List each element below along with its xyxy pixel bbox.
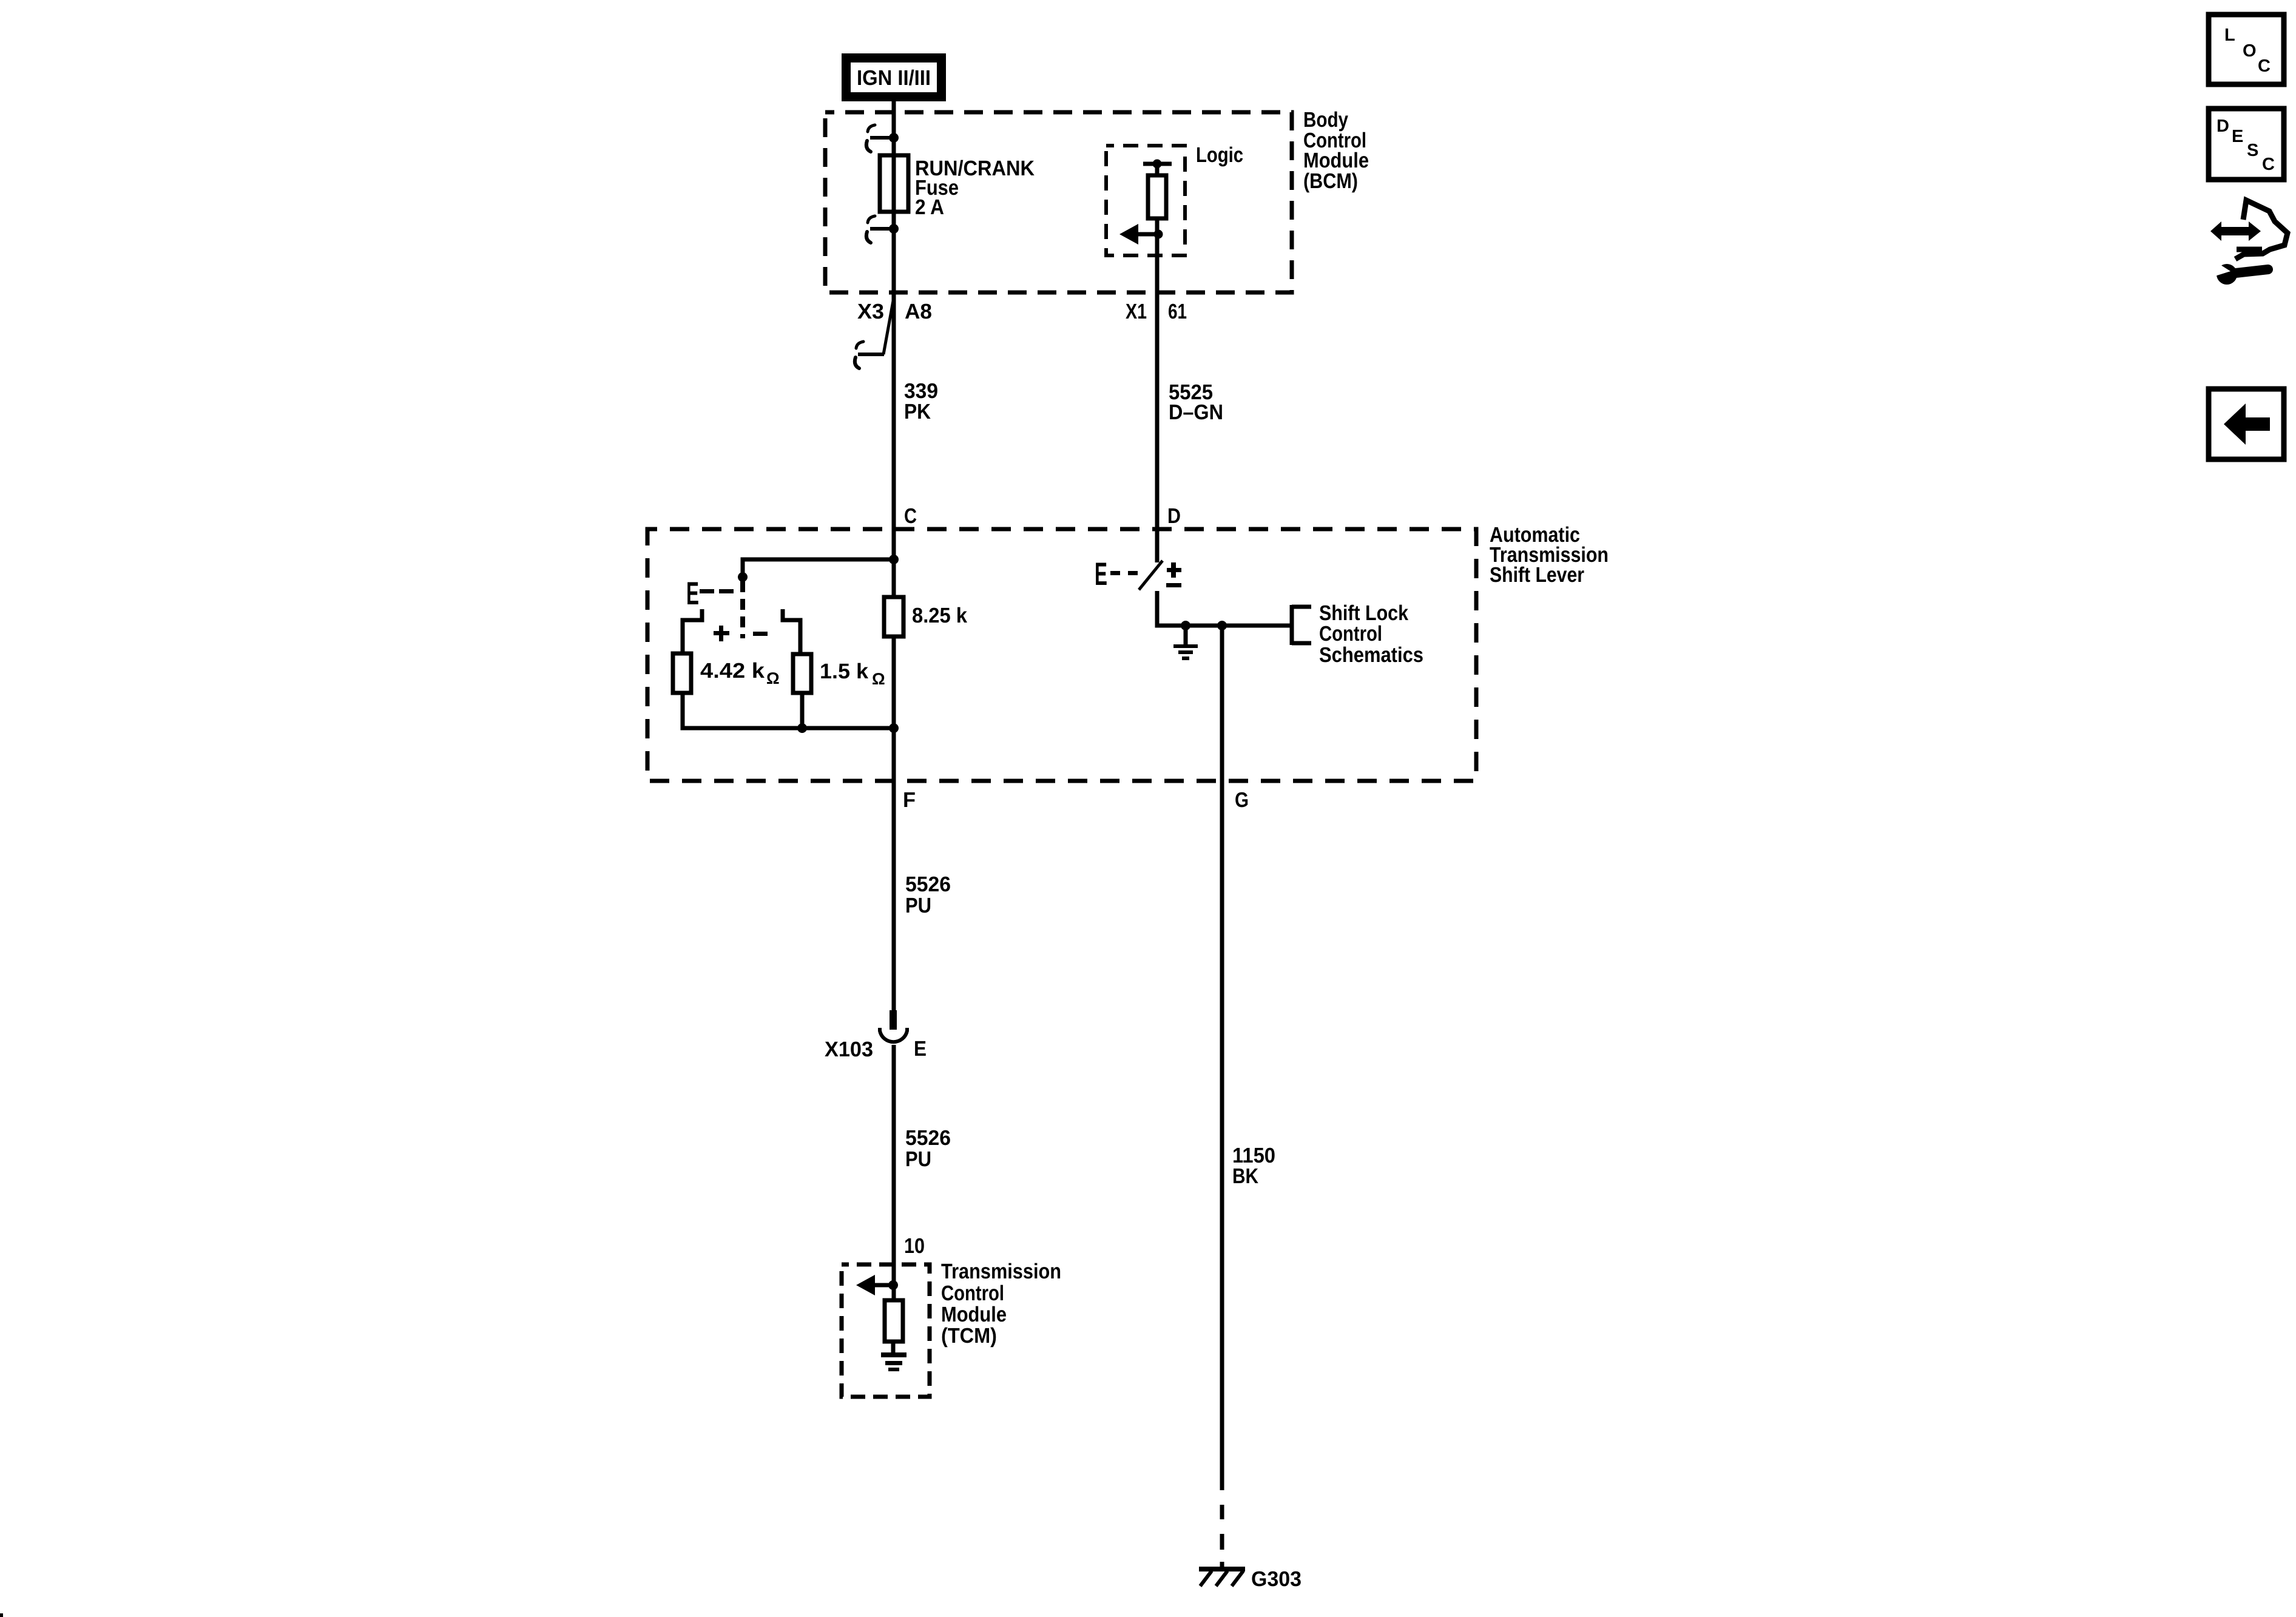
- svg-text:A8: A8: [905, 300, 932, 323]
- junction battery feed: [738, 572, 748, 582]
- connector X103 cup: [880, 1028, 907, 1042]
- wire node C into lever position sensor: [743, 559, 894, 577]
- wire label 1150 BK: [1232, 1144, 1275, 1188]
- switch callout E dashes: [1095, 556, 1138, 592]
- page artifact dot bottom-left: [0, 1613, 3, 1617]
- wire label 5526 PU lower: [905, 1126, 951, 1171]
- svg-text:(BCM): (BCM): [1303, 169, 1358, 193]
- svg-text:Control: Control: [1319, 622, 1382, 646]
- svg-text:(TCM): (TCM): [941, 1324, 997, 1348]
- sidebar icon diagnostic (double arrow, outline, wrench): [2209, 200, 2288, 285]
- junction ground stub: [1181, 621, 1190, 630]
- ground symbol at switch: [1173, 626, 1198, 660]
- svg-text:Schematics: Schematics: [1319, 643, 1423, 667]
- svg-text:O: O: [2243, 41, 2257, 61]
- svg-text:Logic: Logic: [1196, 143, 1243, 167]
- wire label 339 PK: [904, 379, 938, 424]
- svg-text:PU: PU: [905, 894, 931, 917]
- svg-text:C: C: [904, 504, 917, 528]
- svg-text:Control: Control: [941, 1281, 1004, 1305]
- switch plus-minus mark: [1166, 562, 1181, 587]
- svg-text:IGN II/III: IGN II/III: [857, 66, 931, 90]
- module box Automatic Transmission Shift Lever (dashed outline): [647, 529, 1476, 781]
- power source label IGN II/III: [842, 53, 946, 101]
- connector X3 slash: [883, 294, 894, 354]
- battery left terminal wire: [683, 609, 702, 653]
- label Body Control Module (BCM): [1303, 108, 1369, 193]
- svg-text:X1: X1: [1126, 300, 1147, 323]
- logic top junction: [1153, 160, 1162, 169]
- label Transmission Control Module (TCM): [941, 1260, 1061, 1348]
- svg-text:X3: X3: [857, 300, 884, 323]
- svg-text:Ω: Ω: [766, 669, 780, 687]
- connector X3 clip: [855, 342, 884, 368]
- wire node G to G303 (solid run): [1220, 626, 1224, 1490]
- logic top bar: [1143, 162, 1172, 166]
- logic sub-box in BCM (dashed): [1106, 146, 1185, 255]
- label Automatic Transmission Shift Lever: [1490, 523, 1609, 587]
- svg-text:D: D: [2217, 116, 2229, 136]
- bracket to Shift Lock Control Schematics: [1290, 605, 1294, 645]
- svg-text:1.5 k: 1.5 k: [820, 660, 869, 683]
- svg-text:X103: X103: [825, 1038, 873, 1061]
- TCM arrow (signal into module): [856, 1275, 893, 1295]
- resistor 1.5 k: [793, 654, 811, 693]
- resistor 8.25 k: [884, 597, 903, 636]
- junction node F top: [889, 723, 899, 733]
- sidebar icon back button: [2209, 389, 2284, 459]
- junction above fuse: [889, 133, 899, 143]
- svg-text:5526: 5526: [905, 873, 951, 896]
- svg-text:G: G: [1235, 788, 1249, 812]
- fuse clip lower: [866, 216, 892, 243]
- svg-text:Transmission: Transmission: [941, 1260, 1061, 1283]
- svg-text:D–GN: D–GN: [1169, 400, 1223, 424]
- svg-text:PK: PK: [904, 400, 931, 424]
- svg-text:8.25 k: 8.25 k: [912, 604, 967, 627]
- wire dashed run to G303: [1220, 1505, 1224, 1568]
- svg-text:F: F: [903, 788, 916, 812]
- svg-text:C: C: [2258, 56, 2271, 76]
- svg-text:61: 61: [1168, 300, 1187, 323]
- wire below 1.5 k: [800, 693, 805, 728]
- module box BCM (dashed outline): [825, 112, 1292, 292]
- svg-text:2 A: 2 A: [915, 195, 944, 219]
- fuse RUN/CRANK 2 A: [880, 155, 908, 212]
- battery center dashed line: [740, 581, 745, 638]
- battery plus sign: [714, 626, 729, 641]
- value label 4.42 k ohm: [700, 659, 780, 687]
- connector X103 male terminal: [890, 1010, 897, 1030]
- svg-text:Module: Module: [941, 1303, 1007, 1326]
- value label 1.5 k ohm: [820, 660, 885, 688]
- sidebar icon LOC button: [2209, 15, 2284, 84]
- shift lock switch blade: [1139, 561, 1163, 590]
- junction below fuse: [889, 224, 899, 234]
- shift lock switch wire upper: [1155, 529, 1160, 562]
- svg-text:Ω: Ω: [872, 670, 885, 688]
- svg-text:D: D: [1167, 504, 1181, 528]
- logic arrow (signal into logic): [1119, 224, 1158, 245]
- svg-text:E: E: [686, 576, 699, 612]
- TCM junction: [888, 1280, 898, 1290]
- resistor in BCM logic: [1148, 175, 1166, 218]
- svg-text:10: 10: [904, 1234, 925, 1258]
- svg-text:Shift Lever: Shift Lever: [1490, 563, 1584, 587]
- sidebar icon DESC button: [2209, 109, 2284, 180]
- battery minus sign: [753, 632, 768, 636]
- wire label 5526 PU upper: [905, 873, 951, 917]
- label RUN/CRANK Fuse 2 A: [915, 157, 1035, 219]
- logic junction: [1154, 230, 1163, 239]
- junction node C top: [889, 555, 899, 564]
- svg-text:S: S: [2247, 141, 2258, 160]
- junction node G top: [1217, 621, 1227, 630]
- resistor 4.42 k: [673, 653, 691, 693]
- svg-text:E: E: [2232, 127, 2243, 146]
- wire 8.25 k to node F: [892, 636, 896, 1010]
- svg-text:L: L: [2224, 25, 2235, 45]
- resistor in TCM: [885, 1300, 903, 1342]
- svg-text:4.42 k: 4.42 k: [700, 659, 765, 683]
- label Shift Lock Control Schematics: [1319, 601, 1423, 667]
- junction below 1.5 k: [797, 723, 807, 733]
- ground symbol in TCM: [881, 1352, 907, 1371]
- wire resistor to TCM ground: [891, 1342, 896, 1354]
- svg-text:5526: 5526: [905, 1126, 951, 1150]
- wire label 5525 D-GN: [1169, 380, 1223, 424]
- wire resistor to logic junction: [1155, 218, 1160, 234]
- wire from IGN II/III through fuse to node C: [892, 101, 896, 597]
- svg-text:G303: G303: [1251, 1567, 1302, 1591]
- battery callout E dashes: [686, 576, 734, 612]
- svg-text:PU: PU: [905, 1147, 931, 1171]
- fuse clip upper: [866, 125, 892, 152]
- svg-text:E: E: [1095, 556, 1107, 592]
- battery right terminal wire: [783, 609, 800, 655]
- ground G303 symbol: [1199, 1567, 1245, 1586]
- svg-text:E: E: [914, 1037, 927, 1061]
- wire bar to logic resistor: [1155, 164, 1160, 175]
- wire below 4.42 k: [683, 693, 894, 728]
- svg-text:C: C: [2262, 155, 2275, 174]
- module box TCM (dashed outline): [842, 1264, 930, 1397]
- switch lower wire to ground bus: [1157, 591, 1292, 626]
- wire from logic to node D (terminal 61): [1155, 234, 1160, 529]
- wire X103 to TCM pin 10: [892, 1045, 896, 1300]
- svg-text:BK: BK: [1232, 1164, 1258, 1188]
